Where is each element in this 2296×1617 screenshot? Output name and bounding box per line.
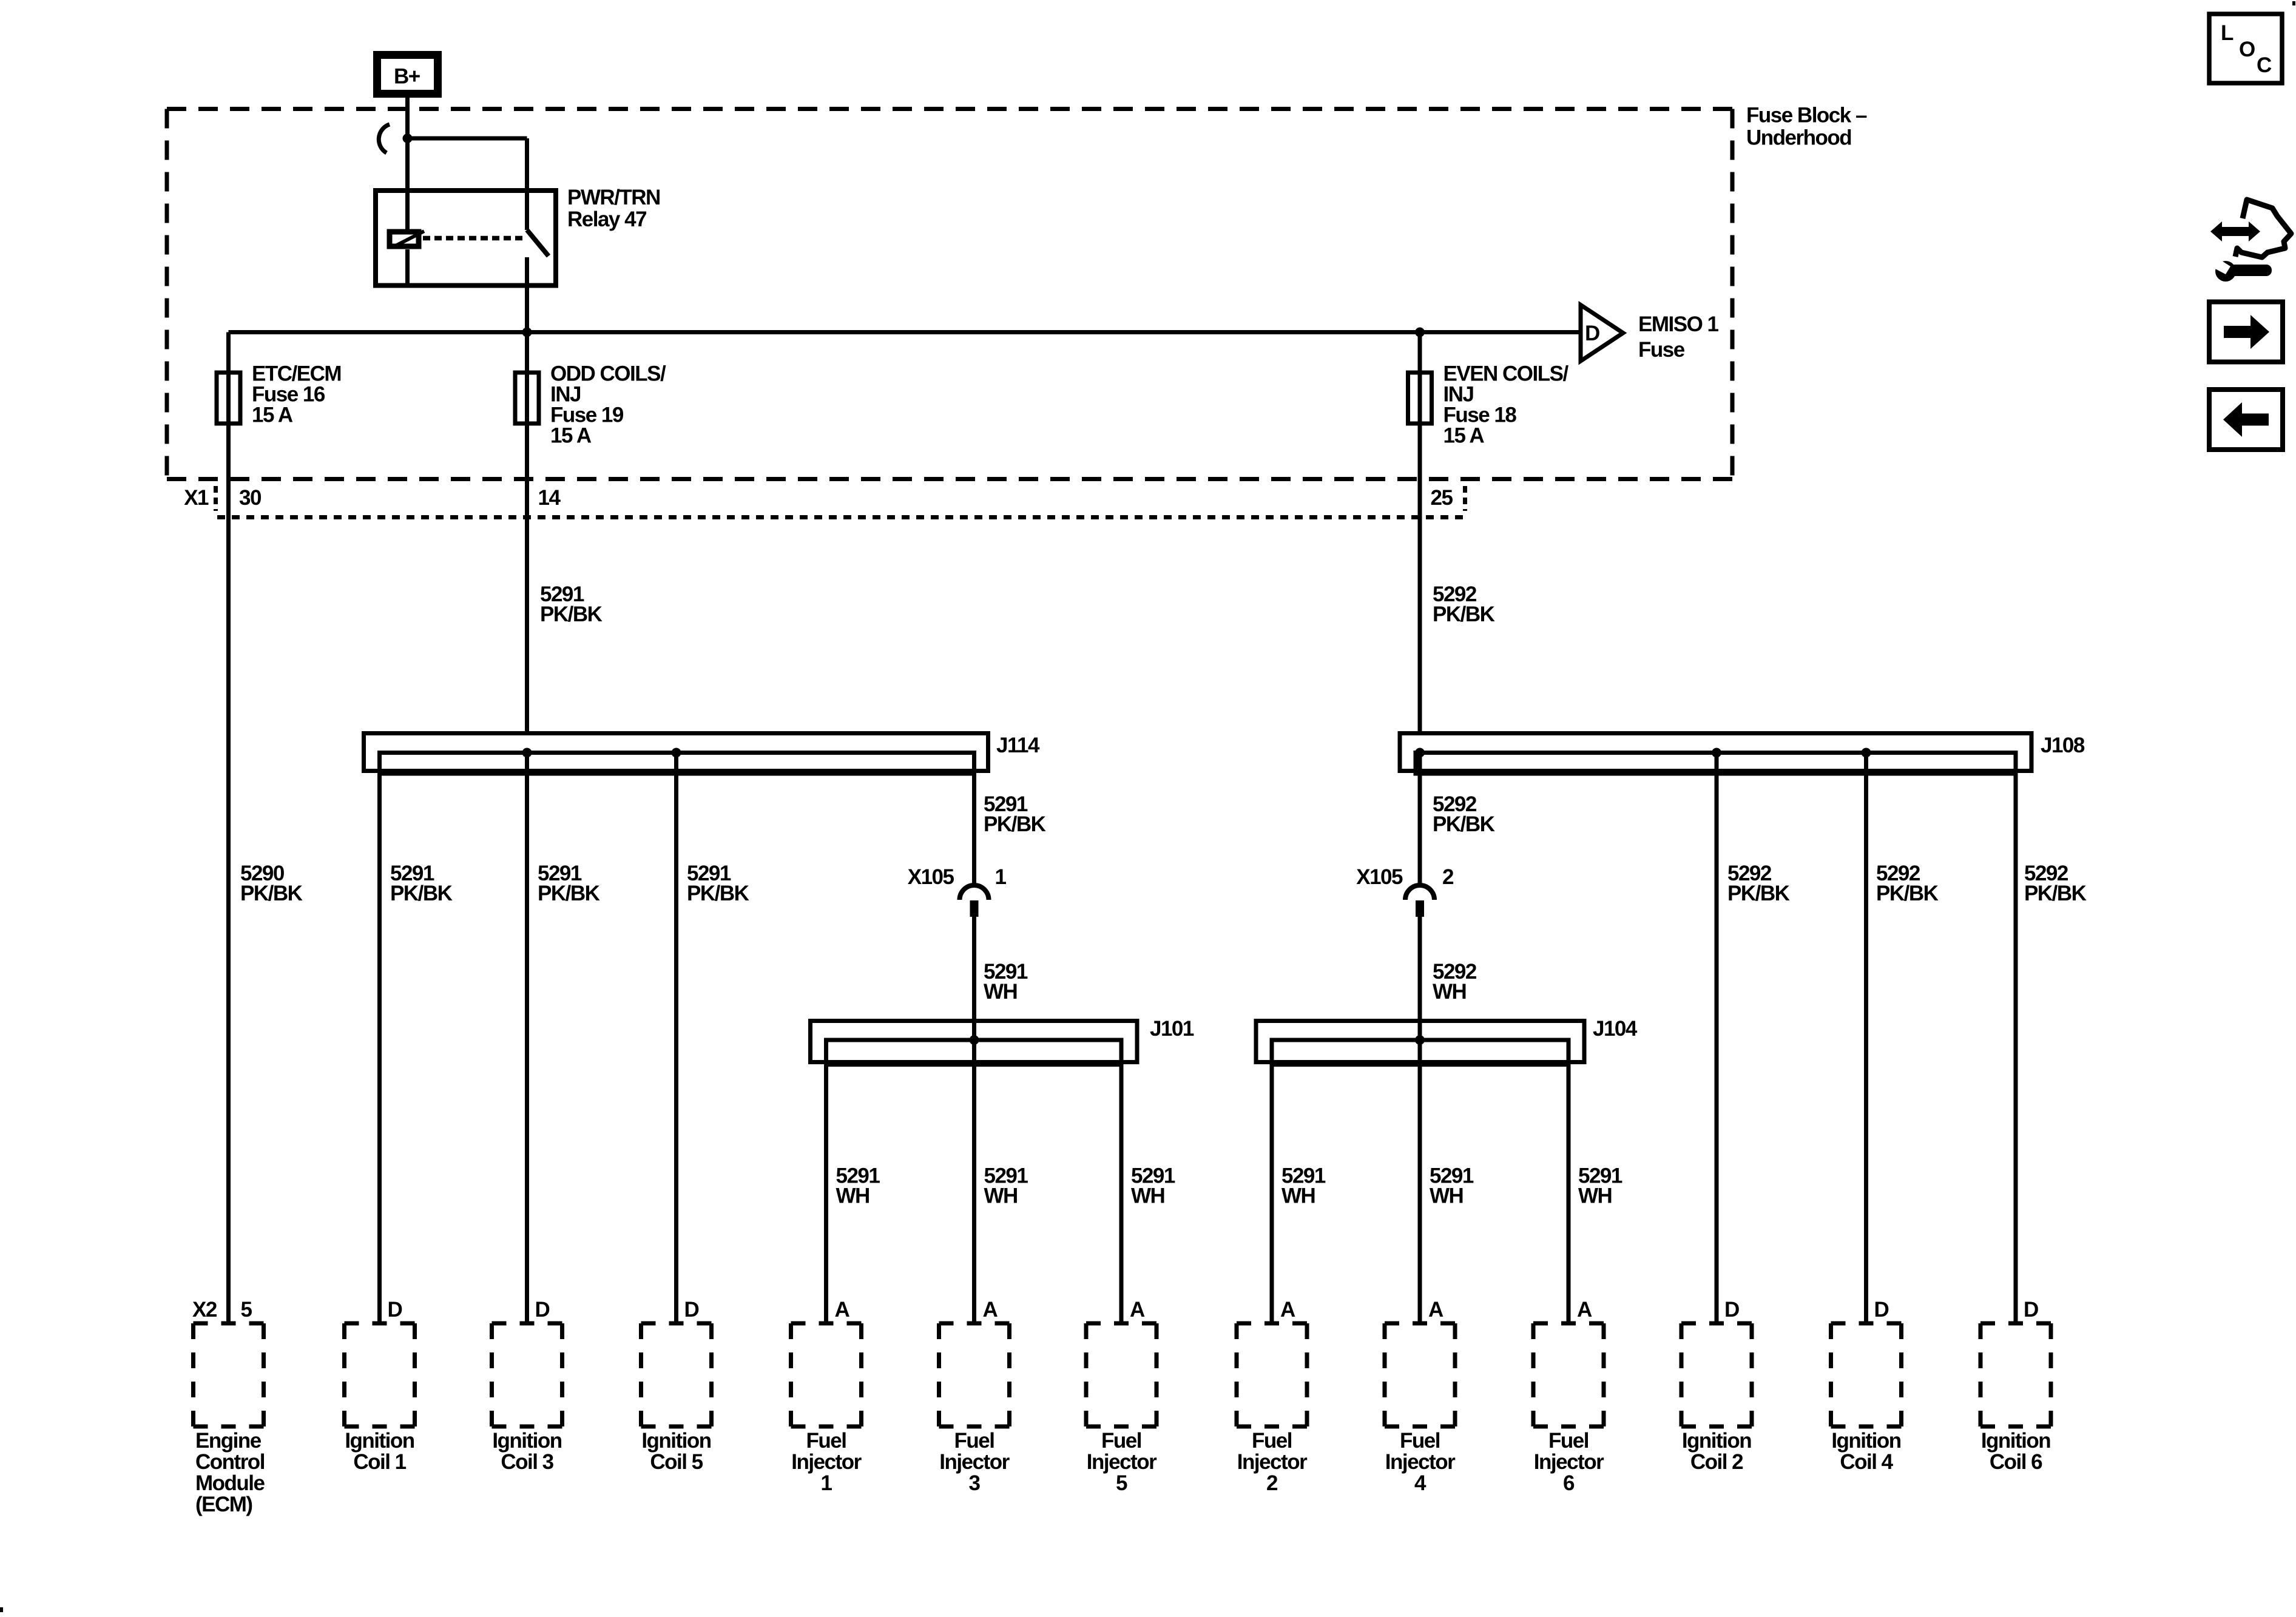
component Ignition Coil 3 dashed box xyxy=(492,1322,562,1326)
wire J108 pass-through to X105 pin 2 xyxy=(1418,753,1422,886)
svg-text:PK/BK: PK/BK xyxy=(240,882,303,905)
svg-text:Fuse: Fuse xyxy=(1638,338,1685,362)
svg-text:Coil 1: Coil 1 xyxy=(353,1450,406,1474)
connector X1 separator right xyxy=(1463,486,1467,511)
svg-text:5: 5 xyxy=(1116,1471,1127,1495)
relay PWR/TRN Relay 47 box xyxy=(376,191,556,286)
relay switch fixed contact top xyxy=(525,191,529,230)
icon back arrow box xyxy=(2209,390,2283,450)
junction node J108 / ignition coil 2 wire xyxy=(1712,748,1721,758)
svg-text:2: 2 xyxy=(1266,1471,1278,1495)
svg-text:J104: J104 xyxy=(1593,1017,1638,1041)
wire X105-1 to J101 xyxy=(972,917,976,1040)
wire bus down through fuse 18 to J108 xyxy=(1418,333,1422,734)
svg-text:Ignition: Ignition xyxy=(345,1429,414,1453)
svg-text:1: 1 xyxy=(821,1471,832,1495)
svg-text:WH: WH xyxy=(1281,1184,1315,1208)
svg-text:C: C xyxy=(2257,53,2272,77)
icon wrench xyxy=(2214,259,2272,282)
relay coil diagonal xyxy=(392,231,424,248)
wire bus down through fuse 19 to J114 xyxy=(525,333,529,734)
component Fuel Injector 1 dashed box xyxy=(791,1322,862,1326)
svg-text:Coil 2: Coil 2 xyxy=(1690,1450,1743,1474)
svg-text:X105: X105 xyxy=(908,865,954,889)
fuse block underhood dashed border left xyxy=(165,109,169,479)
svg-text:Ignition: Ignition xyxy=(1831,1429,1900,1453)
junction node J101 / fuel injector 3 wire xyxy=(970,1035,979,1045)
svg-text:D: D xyxy=(1585,322,1599,345)
svg-text:Coil 5: Coil 5 xyxy=(650,1450,703,1474)
svg-text:Relay 47: Relay 47 xyxy=(567,208,646,231)
component Fuel Injector 6 dashed box xyxy=(1533,1322,1604,1326)
junction node J114 / fuse19 wire xyxy=(522,748,532,758)
svg-text:X2: X2 xyxy=(192,1298,217,1322)
relay coil feed wire xyxy=(405,191,410,231)
splice pack J108 inner xyxy=(1416,753,2016,774)
svg-text:PK/BK: PK/BK xyxy=(984,812,1046,836)
icon forward arrow box xyxy=(2209,302,2283,362)
svg-text:WH: WH xyxy=(1578,1184,1612,1208)
splice pack J108 outer xyxy=(1400,734,2031,771)
wire J104 pass-through to fuel injector 4 xyxy=(1418,1040,1422,1323)
svg-text:25: 25 xyxy=(1431,486,1453,510)
junction node J114 / ignition coil 5 wire xyxy=(672,748,681,758)
svg-text:WH: WH xyxy=(984,980,1017,1004)
wire J104 to fuel injector 6 xyxy=(1567,1065,1571,1324)
svg-text:Fuel: Fuel xyxy=(1101,1429,1141,1453)
connector X105 pin 2 (female/male) xyxy=(1405,885,1434,900)
splice pack J114 outer xyxy=(364,734,988,771)
wire X105-2 to J104 xyxy=(1418,917,1422,1040)
svg-text:A: A xyxy=(1130,1298,1145,1322)
fuse F16 ETC/ECM xyxy=(217,373,240,424)
svg-text:Injector: Injector xyxy=(791,1450,862,1474)
wire J101 pass-through to fuel injector 3 xyxy=(972,1040,976,1323)
connector X105 pin 1 (female/male) xyxy=(960,885,989,900)
svg-text:WH: WH xyxy=(836,1184,869,1208)
fuse block underhood dashed border right xyxy=(1730,109,1735,479)
svg-text:PK/BK: PK/BK xyxy=(1433,812,1495,836)
svg-text:Injector: Injector xyxy=(939,1450,1010,1474)
svg-text:5: 5 xyxy=(241,1298,252,1322)
svg-text:WH: WH xyxy=(1430,1184,1463,1208)
icon forward arrow xyxy=(2224,315,2269,349)
component Ignition Coil 6 dashed box xyxy=(1980,1322,2051,1326)
fuse F18 EVEN COILS/INJ xyxy=(1408,373,1432,424)
svg-text:PK/BK: PK/BK xyxy=(1727,882,1790,905)
component Ignition Coil 4 dashed box xyxy=(1831,1322,1902,1326)
svg-text:D: D xyxy=(1724,1298,1739,1322)
component Ignition Coil 5 dashed box xyxy=(641,1322,712,1326)
svg-text:PK/BK: PK/BK xyxy=(390,882,453,905)
svg-text:D: D xyxy=(535,1298,550,1322)
wire relay output bus xyxy=(229,330,1581,334)
wire J114 to ignition coil 5 xyxy=(674,753,678,1324)
wire J101 to fuel injector 1 xyxy=(824,1065,828,1324)
svg-text:D: D xyxy=(1874,1298,1889,1322)
svg-text:A: A xyxy=(1280,1298,1295,1322)
connector X1 band bottom dashed line xyxy=(217,515,1463,519)
svg-text:30: 30 xyxy=(239,486,262,510)
wire J114 pass-through to ignition coil 3 xyxy=(525,753,529,1324)
junction node bus / fuse 19 xyxy=(522,328,532,337)
wire J101 to fuel injector 5 xyxy=(1119,1065,1124,1324)
fusible-link hook at B+ feed xyxy=(379,124,390,153)
fuse block underhood dashed border bottom xyxy=(167,477,1732,481)
svg-text:WH: WH xyxy=(1131,1184,1164,1208)
svg-text:WH: WH xyxy=(984,1184,1018,1208)
svg-text:14: 14 xyxy=(538,486,561,510)
svg-text:Injector: Injector xyxy=(1087,1450,1157,1474)
svg-text:O: O xyxy=(2239,38,2255,61)
svg-text:PK/BK: PK/BK xyxy=(687,882,749,905)
relay actuation dashed link xyxy=(423,236,525,241)
svg-text:Engine: Engine xyxy=(195,1429,262,1453)
svg-text:X1: X1 xyxy=(184,486,209,510)
relay coil C1 xyxy=(390,232,419,246)
svg-text:Control: Control xyxy=(195,1450,265,1474)
svg-text:2: 2 xyxy=(1442,865,1454,889)
svg-text:PK/BK: PK/BK xyxy=(1433,603,1495,626)
svg-text:Injector: Injector xyxy=(1534,1450,1604,1474)
junction node B+ / relay switch feed xyxy=(403,133,413,143)
svg-text:Coil 4: Coil 4 xyxy=(1840,1450,1893,1474)
wire B+ down to relay xyxy=(405,98,410,192)
svg-text:D: D xyxy=(2024,1298,2038,1322)
splice pack J101 inner xyxy=(826,1040,1122,1065)
component Ignition Coil 1 dashed box xyxy=(345,1322,415,1326)
svg-text:Coil 3: Coil 3 xyxy=(501,1450,553,1474)
svg-text:A: A xyxy=(983,1298,998,1322)
svg-text:Coil 6: Coil 6 xyxy=(1990,1450,2042,1474)
svg-text:1: 1 xyxy=(995,865,1007,889)
svg-text:PK/BK: PK/BK xyxy=(538,882,600,905)
svg-text:Ignition: Ignition xyxy=(641,1429,711,1453)
fuse block underhood dashed border top xyxy=(167,107,1732,111)
relay switch fixed contact bottom xyxy=(525,257,529,333)
icon back arrow xyxy=(2223,402,2269,437)
svg-text:Fuel: Fuel xyxy=(954,1429,994,1453)
svg-text:EMISO 1: EMISO 1 xyxy=(1638,312,1719,336)
component Fuel Injector 4 dashed box xyxy=(1385,1322,1455,1326)
svg-text:A: A xyxy=(1428,1298,1443,1322)
svg-text:PWR/TRN: PWR/TRN xyxy=(567,186,660,209)
svg-text:WH: WH xyxy=(1433,980,1466,1004)
icon hand outline xyxy=(2235,200,2291,257)
off-page connector EMISO 1 Fuse triangle xyxy=(1581,305,1623,362)
component ECM dashed box xyxy=(194,1322,264,1326)
svg-text:Module: Module xyxy=(195,1471,265,1495)
relay coil return wire xyxy=(405,249,410,286)
svg-text:PK/BK: PK/BK xyxy=(540,603,603,626)
wire J114 to X105 pin 1 xyxy=(972,774,976,885)
splice pack J104 outer xyxy=(1256,1021,1584,1062)
svg-text:L: L xyxy=(2221,21,2234,45)
svg-text:Underhood: Underhood xyxy=(1746,126,1851,150)
component Fuel Injector 2 dashed box xyxy=(1237,1322,1307,1326)
svg-text:D: D xyxy=(684,1298,699,1322)
svg-text:6: 6 xyxy=(1563,1471,1575,1495)
component Ignition Coil 2 dashed box xyxy=(1681,1322,1752,1326)
junction node J104 / fuel injector 4 wire xyxy=(1415,1035,1425,1045)
fuse F19 ODD COILS/INJ xyxy=(515,373,539,424)
splice pack J101 outer xyxy=(811,1021,1138,1062)
svg-text:A: A xyxy=(1577,1298,1592,1322)
icon LOC box xyxy=(2209,14,2282,83)
junction node J108 / fuse18 wire xyxy=(1415,748,1425,758)
splice pack J104 inner xyxy=(1272,1040,1568,1065)
wire J108 to ignition coil 2 xyxy=(1715,753,1719,1324)
svg-text:J101: J101 xyxy=(1150,1017,1194,1041)
svg-text:D: D xyxy=(388,1298,402,1322)
svg-text:4: 4 xyxy=(1414,1471,1427,1495)
svg-text:B+: B+ xyxy=(394,65,420,89)
svg-text:(ECM): (ECM) xyxy=(195,1493,252,1516)
svg-text:15 A: 15 A xyxy=(550,424,592,448)
junction node J108 / ignition coil 4 wire xyxy=(1862,748,1871,758)
icon double-headed arrow xyxy=(2210,221,2260,241)
wire J104 to fuel injector 2 xyxy=(1270,1065,1274,1324)
svg-text:PK/BK: PK/BK xyxy=(1876,882,1939,905)
svg-text:Fuel: Fuel xyxy=(1252,1429,1292,1453)
svg-text:PK/BK: PK/BK xyxy=(2024,882,2087,905)
svg-text:3: 3 xyxy=(969,1471,981,1495)
wire J108 to ignition coil 6 xyxy=(2014,774,2018,1323)
svg-text:Fuse Block –: Fuse Block – xyxy=(1746,104,1867,127)
wire junction to switch branch (horizontal) xyxy=(408,137,527,141)
svg-text:Fuel: Fuel xyxy=(1548,1429,1589,1453)
svg-text:Injector: Injector xyxy=(1385,1450,1456,1474)
power symbol B+ box xyxy=(377,55,438,94)
svg-text:Ignition: Ignition xyxy=(492,1429,561,1453)
svg-text:Ignition: Ignition xyxy=(1981,1429,2050,1453)
component Fuel Injector 3 dashed box xyxy=(939,1322,1010,1326)
svg-text:Injector: Injector xyxy=(1237,1450,1308,1474)
svg-text:Ignition: Ignition xyxy=(1682,1429,1751,1453)
wire J108 to ignition coil 4 xyxy=(1864,753,1868,1324)
wire switch branch down into relay xyxy=(525,138,529,192)
svg-text:X105: X105 xyxy=(1356,865,1403,889)
junction node bus / fuse 18 xyxy=(1415,328,1425,337)
svg-text:J114: J114 xyxy=(996,734,1040,757)
svg-text:Fuel: Fuel xyxy=(806,1429,846,1453)
relay switch blade xyxy=(527,230,549,256)
svg-text:Fuel: Fuel xyxy=(1400,1429,1440,1453)
svg-text:15 A: 15 A xyxy=(252,403,293,427)
page artifact speck top-right xyxy=(2292,1,2295,5)
svg-text:A: A xyxy=(835,1298,850,1322)
wire bus down through fuse 16 to ECM xyxy=(226,333,231,1324)
wire J114 to ignition coil 1 xyxy=(377,774,382,1323)
svg-text:J108: J108 xyxy=(2041,734,2085,757)
connector X1 separator left xyxy=(214,486,218,511)
page artifact dot bottom-left xyxy=(0,1607,3,1612)
svg-text:15 A: 15 A xyxy=(1443,424,1485,448)
component Fuel Injector 5 dashed box xyxy=(1086,1322,1156,1326)
splice pack J114 inner xyxy=(380,753,974,774)
